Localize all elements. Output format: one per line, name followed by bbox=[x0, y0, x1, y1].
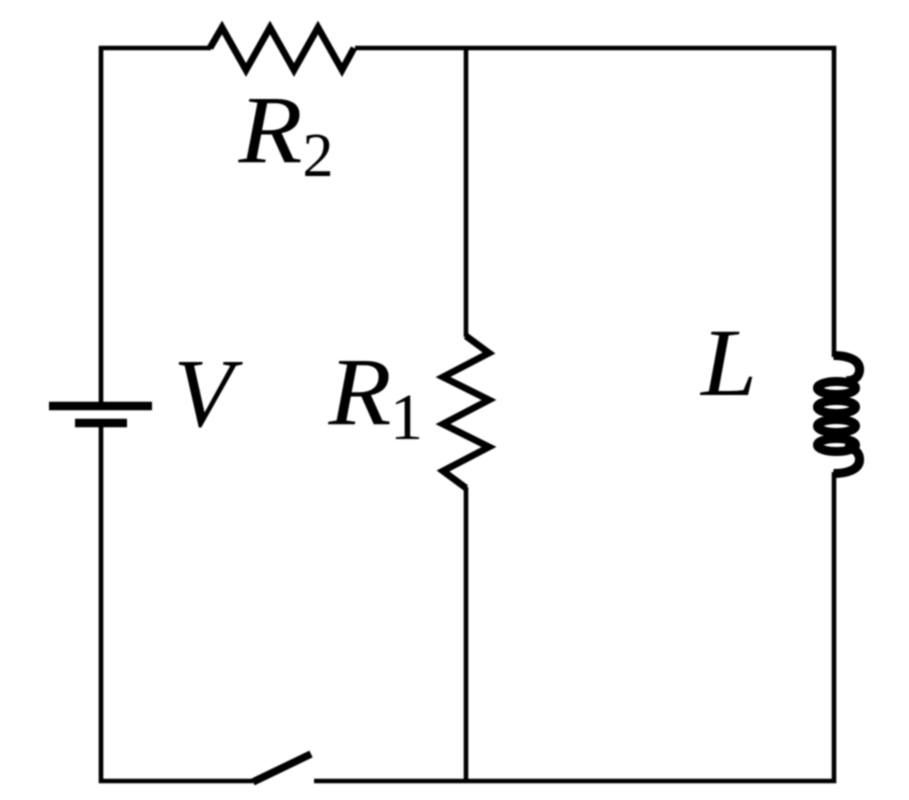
battery V short plate bbox=[75, 419, 127, 428]
svg-text:V: V bbox=[174, 340, 244, 448]
inductor L coil loop 1 bbox=[818, 382, 856, 395]
battery V long plate bbox=[49, 402, 152, 411]
resistor R2 zigzag bbox=[210, 28, 354, 71]
wire right-bottom: inductor bottom down, left along bottom to switch right contact bbox=[314, 472, 834, 781]
inductor L coil loop 3 bbox=[818, 420, 856, 433]
svg-text:R: R bbox=[237, 76, 302, 183]
wire bottom-left: switch left contact to bottom-left corner, up to battery bottom plate bbox=[101, 425, 253, 781]
svg-text:1: 1 bbox=[390, 381, 423, 454]
inductor L coil top hook bbox=[834, 356, 860, 381]
svg-text:R: R bbox=[327, 338, 391, 445]
inductor L coil loop 2 bbox=[818, 401, 856, 414]
inductor L coil bottom hook bbox=[834, 448, 860, 473]
wire top-right: R2 end right along top, down right side to inductor top bbox=[355, 48, 834, 357]
wire middle-bottom: R1 down to bottom wire bbox=[464, 487, 469, 781]
svg-text:2: 2 bbox=[303, 122, 334, 190]
wire middle-top: node at top wire down to R1 bbox=[464, 48, 469, 337]
wire left-top: battery top plate up to top-left corner, right to R2 bbox=[101, 48, 211, 404]
resistor R1 zigzag bbox=[443, 336, 489, 488]
inductor L coil loop 4 bbox=[818, 439, 856, 452]
switch blade bbox=[253, 754, 311, 782]
svg-text:L: L bbox=[699, 309, 757, 416]
